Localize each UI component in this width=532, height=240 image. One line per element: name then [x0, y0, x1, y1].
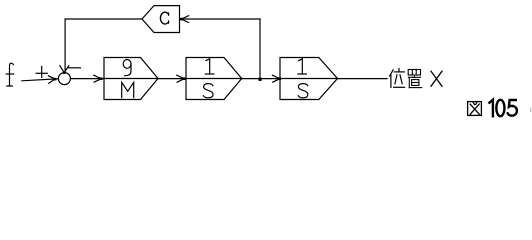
wire summing junction to block 9/M	[71, 78, 104, 80]
arrowhead into block 9/M	[94, 75, 101, 82]
fraction bar second 1/S	[280, 78, 338, 80]
minus sign	[68, 67, 80, 69]
fraction bar 9/M	[104, 78, 158, 80]
wire first 1/S to second 1/S	[242, 78, 280, 80]
label S second	[298, 84, 307, 98]
input label f	[6, 63, 13, 86]
node junction dot	[259, 78, 262, 81]
label C	[160, 12, 168, 24]
arrowhead into summing junction	[48, 76, 55, 84]
arrowhead into second block 1/S	[272, 75, 280, 82]
plus sign	[36, 67, 47, 78]
wire feedback vertical left	[64, 19, 66, 72]
fraction bar first 1/S	[186, 78, 242, 80]
wire feedback top left	[65, 18, 142, 20]
wire input f to summing junction	[22, 79, 58, 81]
wire feedback vertical right	[259, 19, 261, 79]
label 1 first	[205, 59, 213, 74]
summing junction	[58, 73, 70, 85]
output label X	[431, 71, 442, 86]
label S first	[204, 84, 213, 98]
block 9/M	[104, 58, 158, 100]
arrowhead into first block 1/S	[177, 75, 184, 82]
wire block 9/M to first block 1/S	[158, 78, 186, 80]
label 9	[123, 60, 131, 76]
scan speck	[530, 108, 531, 113]
output label 位	[390, 69, 405, 88]
caption 図	[468, 102, 482, 116]
wire into block C	[180, 18, 260, 20]
block C	[142, 6, 180, 33]
output label 置	[408, 70, 422, 88]
wire output	[338, 78, 388, 80]
label 1 second	[298, 59, 306, 74]
arrowhead into block C	[181, 16, 188, 23]
label M	[122, 82, 134, 97]
block 1/S first	[186, 58, 242, 100]
block 1/S second	[280, 58, 338, 100]
caption 105	[489, 100, 517, 117]
arrowhead into summing junction top	[60, 66, 69, 73]
